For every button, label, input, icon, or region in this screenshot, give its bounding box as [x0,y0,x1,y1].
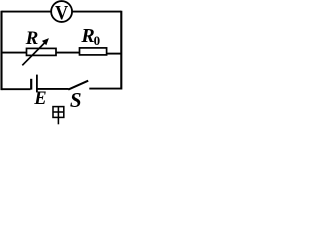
voltmeter U1 circle [51,1,72,22]
wire middle-center segment [56,52,80,54]
svg-text:S: S [70,88,82,112]
voltmeter label V [55,2,68,24]
wire left wall [0,11,2,90]
svg-text:R: R [25,28,39,49]
svg-text:V: V [55,2,68,24]
svg-text:R: R [80,25,94,47]
svg-text:E: E [33,89,46,109]
wire right wall [120,11,122,90]
resistor R0 body [80,48,107,55]
rheostat arrow [22,42,46,66]
label jia (CJK 甲) drawn as strokes [53,107,64,125]
wire top-left segment [2,11,52,13]
switch S blade [68,81,88,90]
wire top-right segment [72,11,121,13]
rheostat R body [27,48,57,55]
wire middle-right segment [107,53,122,55]
wire bottom-middle segment [38,88,69,90]
svg-text:0: 0 [94,33,101,48]
wire middle-left segment [2,52,27,54]
battery E short plate [30,79,32,90]
wire bottom-left segment [2,88,31,90]
battery E long plate [36,75,38,93]
wire bottom-right segment [89,88,121,90]
